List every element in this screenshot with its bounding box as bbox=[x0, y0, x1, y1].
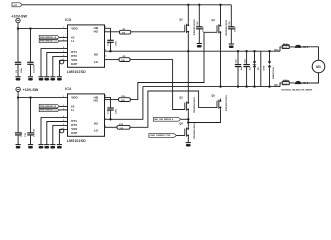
wire RT2 to ground bbox=[47, 53, 68, 77]
capacitor C15 bbox=[15, 98, 27, 145]
svg-text:4: 4 bbox=[63, 115, 64, 118]
transistor Q6 bbox=[179, 121, 196, 139]
inductor L1.1 bbox=[282, 44, 294, 49]
svg-text:M1+: M1+ bbox=[274, 49, 279, 52]
svg-text:PWM_BRIDGE2_HI: PWM_BRIDGE2_HI bbox=[40, 106, 57, 108]
wire Q2 source to phase node bbox=[187, 34, 189, 51]
wire VDD net IC3 bbox=[18, 28, 68, 30]
svg-text:GND: GND bbox=[264, 65, 266, 70]
wire R7 to Q2 gate bbox=[131, 31, 185, 33]
wire EXP IC4 to ground bbox=[59, 129, 67, 144]
svg-text:3: 3 bbox=[63, 39, 64, 41]
svg-text:LO: LO bbox=[94, 60, 99, 64]
svg-text:LOAD_CURRENT_CTRL: LOAD_CURRENT_CTRL bbox=[150, 134, 172, 137]
svg-text:+10V-SW: +10V-SW bbox=[23, 88, 39, 92]
ground C16 bbox=[28, 145, 33, 149]
capacitor C10 bbox=[27, 29, 35, 77]
power +10V-SW supply 1 bbox=[11, 15, 27, 29]
ground C15 bbox=[16, 145, 21, 149]
svg-text:6: 6 bbox=[63, 124, 64, 126]
node +10V supply flag top-left bbox=[12, 3, 22, 7]
ground C28 bbox=[229, 44, 234, 48]
motor M1 bbox=[312, 60, 325, 73]
svg-text:100n: 100n bbox=[21, 67, 23, 73]
capacitor C13 bootstrap bbox=[105, 97, 118, 119]
wire Q3 source to Q6 drain bbox=[187, 112, 189, 127]
svg-text:Q4: Q4 bbox=[211, 18, 215, 22]
svg-text:10u/16V: 10u/16V bbox=[34, 64, 36, 73]
svg-text:Q6: Q6 bbox=[179, 121, 183, 125]
capacitor C28 bbox=[228, 21, 236, 44]
svg-text:100n: 100n bbox=[234, 26, 236, 32]
svg-text:2: 2 bbox=[63, 105, 64, 107]
wire M1- jog to L1.2 bbox=[280, 83, 282, 87]
svg-text:100n: 100n bbox=[116, 40, 118, 46]
resistor R10 bbox=[105, 96, 131, 102]
svg-text:LO: LO bbox=[94, 129, 99, 133]
svg-text:LI: LI bbox=[71, 108, 74, 112]
diode D5 TVS bbox=[253, 51, 260, 86]
svg-text:PWM_BRIDGE2_LO: PWM_BRIDGE2_LO bbox=[40, 110, 57, 112]
diode D6 TVS bbox=[268, 51, 275, 86]
node flag PWM input LI (IC4) bbox=[39, 109, 67, 112]
svg-text:LM5102SD: LM5102SD bbox=[67, 139, 86, 143]
connector K6-1 bbox=[295, 45, 319, 61]
svg-text:L1.2: L1.2 bbox=[283, 47, 288, 49]
wire C28 drop bbox=[230, 5, 232, 27]
wire RT1 IC4 to ground bbox=[41, 118, 68, 145]
wire GND labelled net bbox=[261, 51, 266, 86]
svg-text:VDD: VDD bbox=[71, 27, 78, 31]
svg-text:100n: 100n bbox=[21, 131, 23, 137]
svg-text:HO: HO bbox=[94, 99, 99, 103]
svg-text:100n: 100n bbox=[202, 26, 204, 32]
svg-text:4: 4 bbox=[63, 46, 64, 49]
svg-text:Q5: Q5 bbox=[211, 93, 215, 97]
svg-text:6: 6 bbox=[63, 55, 64, 57]
wire Q5 source return to midpoint bbox=[188, 110, 220, 123]
node flag bridge midpoint bbox=[153, 117, 188, 121]
wire HS net / M1+ phase bbox=[105, 50, 281, 52]
wire EXP to ground bbox=[59, 60, 67, 76]
transistor Q3 bbox=[179, 95, 196, 113]
ground C10 bbox=[28, 77, 33, 81]
transistor Q4 bbox=[211, 18, 228, 36]
ground C26 bbox=[197, 44, 202, 48]
svg-text:HO: HO bbox=[94, 30, 99, 34]
svg-text:HS: HS bbox=[94, 53, 98, 57]
op-amp driver IC3 LM5102SD bbox=[63, 18, 106, 74]
transistor Q2 bbox=[179, 18, 196, 36]
wire VSS IC4 to ground bbox=[53, 125, 68, 144]
wire Q2 drain drop bbox=[187, 5, 189, 23]
capacitor C16 bbox=[27, 98, 35, 145]
svg-text:EXP: EXP bbox=[71, 131, 77, 135]
svg-text:PWM_BRIDGE1_HI: PWM_BRIDGE1_HI bbox=[40, 37, 57, 39]
svg-text:IPD068N10N3G: IPD068N10N3G bbox=[226, 95, 228, 111]
inductor L1.2 bbox=[282, 80, 294, 85]
wire VSS to ground bbox=[53, 56, 68, 76]
svg-text:VDD: VDD bbox=[71, 96, 78, 100]
wire RT2 IC4 to ground bbox=[47, 122, 68, 145]
wire VDD net IC4 bbox=[18, 97, 67, 99]
capacitor C23 snubber bbox=[235, 51, 243, 86]
svg-text:743750541_WE-MIDCOM_4R5MH: 743750541_WE-MIDCOM_4R5MH bbox=[281, 88, 313, 91]
svg-text:+10V-SW: +10V-SW bbox=[11, 15, 27, 19]
node flag current control bbox=[149, 134, 185, 138]
node flag PWM input HI (IC3) bbox=[39, 35, 67, 39]
svg-text:HS: HS bbox=[94, 121, 98, 125]
svg-text:2: 2 bbox=[63, 36, 64, 38]
svg-text:SMBJ10CA: SMBJ10CA bbox=[272, 67, 275, 79]
resistor R12 bbox=[105, 124, 131, 130]
svg-text:Q3: Q3 bbox=[179, 95, 183, 99]
svg-text:IPD068N10N3G: IPD068N10N3G bbox=[194, 97, 196, 113]
svg-text:LI: LI bbox=[71, 39, 74, 43]
wire Q4 source down to M1- node bbox=[220, 34, 222, 86]
node flag PWM input HI (IC4) bbox=[39, 104, 67, 108]
svg-text:IPD068N10N3G: IPD068N10N3G bbox=[194, 19, 196, 35]
wire R12 to Q5 gate bbox=[130, 91, 217, 127]
capacitor C26 bbox=[196, 21, 204, 43]
svg-text:Q2: Q2 bbox=[179, 18, 183, 22]
svg-text:1: 1 bbox=[63, 96, 64, 98]
svg-text:SHD_CMD_BRIDGE_A: SHD_CMD_BRIDGE_A bbox=[154, 118, 174, 121]
svg-text:IC4: IC4 bbox=[65, 87, 71, 91]
capacitor C24 snubber bbox=[243, 51, 251, 86]
svg-text:9: 9 bbox=[63, 59, 64, 61]
wire phase node down to Q3 drain bbox=[187, 51, 189, 100]
wire RT1 to ground bbox=[41, 49, 68, 77]
svg-text:IPD068N10N3G: IPD068N10N3G bbox=[194, 123, 196, 139]
svg-text:K6-2: K6-2 bbox=[303, 82, 309, 85]
svg-text:EXP: EXP bbox=[71, 62, 77, 66]
node flag PWM input LI (IC3) bbox=[39, 40, 67, 43]
svg-text:IPD068N10N3G: IPD068N10N3G bbox=[226, 20, 228, 36]
op-amp driver IC4 LM5102SD bbox=[63, 87, 106, 143]
ground Q6 bbox=[186, 143, 191, 147]
svg-text:1: 1 bbox=[63, 27, 64, 29]
wire Q6 source to ground bbox=[187, 138, 189, 143]
svg-text:9: 9 bbox=[63, 128, 64, 130]
resistor R9 bbox=[105, 56, 131, 62]
resistor R7 bbox=[105, 29, 131, 35]
svg-text:100n: 100n bbox=[116, 108, 118, 114]
capacitor C9 bbox=[15, 29, 23, 77]
svg-text:5: 5 bbox=[105, 55, 106, 57]
svg-text:5: 5 bbox=[63, 51, 64, 53]
wire R10 to Q4 gate bbox=[130, 32, 217, 99]
transistor Q5 bbox=[211, 93, 228, 111]
power +10V-SW supply 2 bbox=[16, 87, 39, 97]
svg-text:L2.2: L2.2 bbox=[283, 83, 288, 85]
svg-text:IC3: IC3 bbox=[65, 18, 71, 22]
svg-text:PWM_BRIDGE1_LO: PWM_BRIDGE1_LO bbox=[40, 41, 57, 43]
svg-text:10u/16V: 10u/16V bbox=[34, 128, 36, 137]
capacitor C11 bootstrap bbox=[105, 28, 118, 51]
wire +10V rail top bbox=[22, 4, 231, 6]
wire HS net IC4 bbox=[105, 87, 143, 120]
wire C26 drop bbox=[198, 5, 200, 27]
svg-text:K6-1: K6-1 bbox=[303, 46, 309, 49]
wire R9 to Q3 gate bbox=[130, 60, 185, 110]
junction rail dots bbox=[187, 4, 222, 6]
svg-text:LM5102SD: LM5102SD bbox=[67, 70, 86, 74]
svg-text:5: 5 bbox=[63, 120, 64, 122]
svg-text:M1: M1 bbox=[316, 65, 321, 69]
svg-text:3: 3 bbox=[63, 108, 64, 110]
wire M1- net bbox=[143, 86, 280, 88]
connector K6-2 bbox=[295, 73, 319, 85]
wire M1+ jog to L1.1 bbox=[280, 47, 282, 51]
ground C9 bbox=[15, 77, 20, 81]
wire Q4 drain drop bbox=[220, 5, 222, 23]
